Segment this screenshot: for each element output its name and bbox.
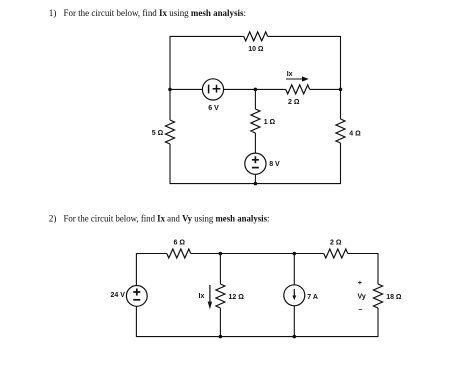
voltage source 6V circle bbox=[202, 79, 223, 100]
wire 6V source to 2 ohm bbox=[224, 88, 286, 90]
resistor 10 ohm (top) bbox=[244, 32, 268, 41]
24V source polarity marks (plus over minus) bbox=[133, 289, 140, 300]
svg-text:Ix: Ix bbox=[199, 293, 205, 300]
resistor 2 ohm (top right) bbox=[324, 249, 348, 258]
node: bottom center junction bbox=[254, 182, 258, 186]
wire top middle bbox=[191, 253, 324, 255]
wire 2 ohm to right mid node bbox=[310, 88, 341, 90]
current arrow Ix (circuit 1) bbox=[286, 76, 309, 81]
node: right mid junction bbox=[339, 88, 343, 92]
svg-text:For the circuit below, find Ix: For the circuit below, find Ix using mes… bbox=[64, 8, 247, 18]
wire bottom-right corner bbox=[255, 143, 340, 184]
wire top right corner down to 18 ohm bbox=[348, 254, 378, 285]
svg-text:24 V: 24 V bbox=[111, 292, 126, 299]
wire 1 ohm to 8V source bbox=[254, 133, 256, 153]
svg-text:6 Ω: 6 Ω bbox=[174, 239, 186, 246]
node: center mid junction bbox=[254, 88, 258, 92]
resistor 4 ohm (right) bbox=[336, 119, 345, 143]
svg-text:10 Ω: 10 Ω bbox=[248, 46, 264, 53]
resistor 6 ohm (top left) bbox=[167, 249, 191, 258]
svg-text:8 V: 8 V bbox=[269, 161, 280, 168]
8V source polarity marks (plus over minus) bbox=[252, 156, 259, 167]
wire 12 ohm to bottom node bbox=[219, 308, 221, 337]
wire right mid node down to 4 ohm bbox=[340, 89, 342, 119]
wire top-left: left mid node up and across to R1 bbox=[170, 36, 244, 89]
svg-text:2 Ω: 2 Ω bbox=[288, 99, 300, 106]
svg-text:Vy: Vy bbox=[358, 293, 366, 300]
svg-text:6 V: 6 V bbox=[208, 105, 219, 112]
svg-text:7 A: 7 A bbox=[307, 294, 318, 301]
current source 7A arrow (down) bbox=[292, 289, 296, 300]
wire left top corner to 6 ohm bbox=[136, 254, 166, 286]
resistor 18 ohm (right) bbox=[374, 284, 383, 308]
node: bottom junction at 7A bbox=[293, 335, 297, 339]
svg-text:For the circuit below, find Ix: For the circuit below, find Ix and Vy us… bbox=[64, 214, 270, 224]
resistor 5 ohm (left) bbox=[166, 120, 175, 144]
svg-text:Ix: Ix bbox=[287, 71, 293, 78]
wire bottom-left corner bbox=[170, 144, 255, 184]
wire top node down to 12 ohm bbox=[219, 254, 221, 285]
wire 7A source to bottom node bbox=[293, 306, 295, 337]
svg-text:1): 1) bbox=[49, 8, 57, 18]
resistor 1 ohm (center branch) bbox=[251, 109, 260, 133]
svg-text:12 Ω: 12 Ω bbox=[229, 294, 245, 301]
svg-text:4 Ω: 4 Ω bbox=[349, 130, 361, 137]
node: top junction at 7A bbox=[293, 252, 297, 256]
current source 7A circle bbox=[284, 285, 305, 306]
node: left mid junction bbox=[168, 88, 172, 92]
svg-text:18 Ω: 18 Ω bbox=[386, 294, 402, 301]
voltage source 8V circle bbox=[245, 153, 266, 174]
wire middle left to 6V source bbox=[170, 88, 202, 90]
wire right bottom corner and bottom rail bbox=[136, 306, 378, 336]
6V source polarity marks (bar and plus) bbox=[209, 85, 221, 94]
current arrow Ix (circuit 2, down) bbox=[208, 285, 212, 310]
svg-text:2): 2) bbox=[49, 214, 57, 224]
svg-text:1 Ω: 1 Ω bbox=[264, 119, 276, 126]
svg-text:2 Ω: 2 Ω bbox=[330, 239, 342, 246]
voltage source 24V circle bbox=[126, 286, 147, 307]
svg-text:+: + bbox=[358, 280, 362, 287]
svg-text:5 Ω: 5 Ω bbox=[152, 130, 164, 137]
resistor 12 ohm (middle branch) bbox=[216, 284, 225, 308]
wire left mid node down to 5 ohm bbox=[169, 89, 171, 120]
node: top junction at 12 ohm bbox=[219, 252, 223, 256]
wire 8V source to bottom node bbox=[254, 174, 256, 183]
wire top node down to 7A source bbox=[293, 254, 295, 285]
node: bottom junction at 12 ohm bbox=[219, 335, 223, 339]
svg-text:−: − bbox=[358, 307, 362, 314]
wire center node down to 1 ohm bbox=[254, 89, 256, 109]
resistor 2 ohm (middle) bbox=[286, 85, 310, 94]
wire top-right: R1 to right mid node bbox=[268, 36, 341, 89]
